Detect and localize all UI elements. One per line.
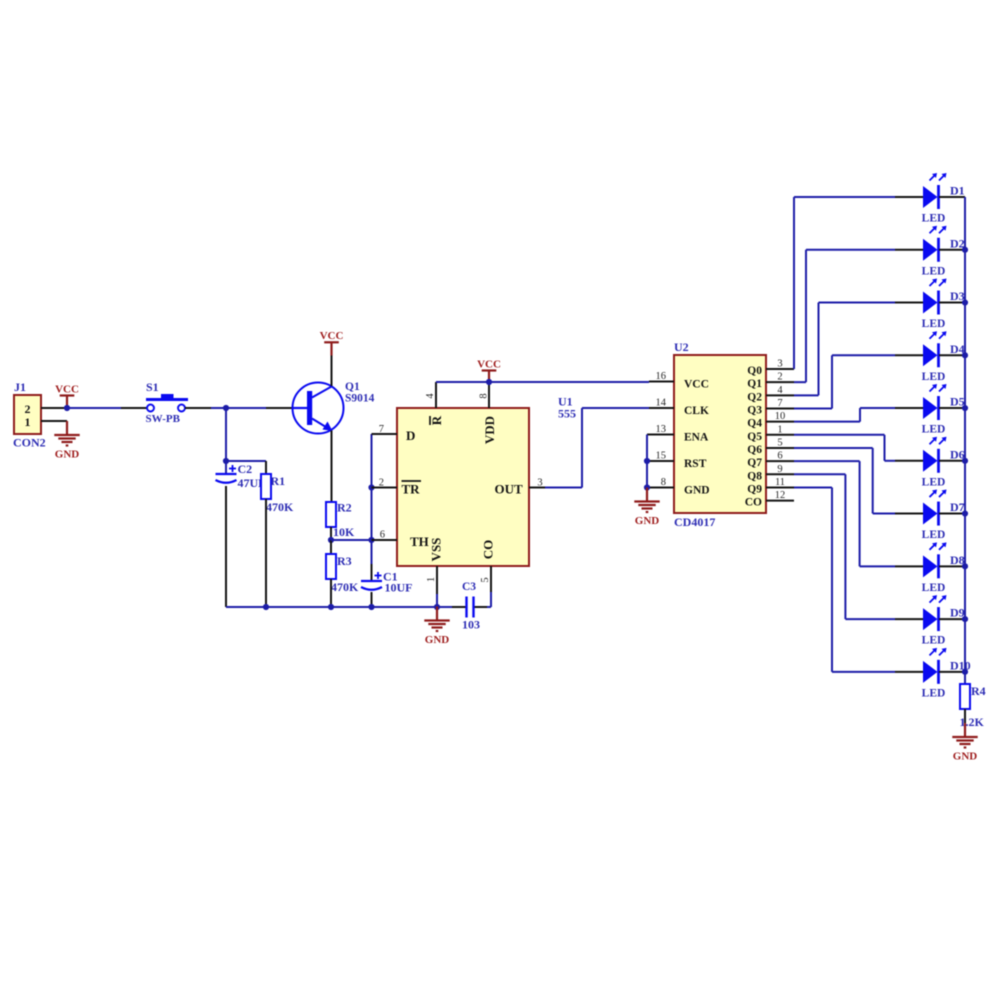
U2 pin 12 CO bbox=[766, 500, 794, 502]
svg-text:1: 1 bbox=[25, 415, 31, 429]
node cathode rail D7 bbox=[962, 510, 968, 516]
svg-text:15: 15 bbox=[656, 451, 667, 462]
svg-text:GND: GND bbox=[953, 750, 978, 762]
svg-text:D: D bbox=[406, 428, 415, 443]
wire Q0 to D1 bbox=[793, 197, 795, 369]
svg-text:1.2K: 1.2K bbox=[960, 715, 985, 729]
U2 pin 2 Q1 bbox=[766, 381, 794, 383]
op-amp U1 555 box bbox=[397, 408, 529, 566]
wire OUT to CLK bbox=[545, 487, 582, 489]
wire base node down to C2 bbox=[225, 408, 227, 461]
wire R4 to ground bbox=[964, 709, 966, 723]
node TR junction bbox=[368, 484, 374, 490]
wire Q7 to D8 bbox=[794, 460, 860, 462]
power VCC (555/U2 net) bbox=[488, 371, 490, 383]
svg-text:LED: LED bbox=[922, 582, 946, 594]
wire vertical D/TR/TH net bbox=[371, 434, 373, 564]
node R1/rail bbox=[263, 604, 269, 610]
LED D7 bbox=[895, 513, 923, 515]
svg-text:VCC: VCC bbox=[477, 358, 501, 370]
wire Q2 to D3 bbox=[794, 394, 819, 396]
svg-text:Q8: Q8 bbox=[747, 470, 762, 482]
U2 pin 4 Q2 bbox=[766, 394, 794, 396]
LED D6 bbox=[895, 460, 923, 462]
LED D8 bbox=[895, 565, 923, 567]
node GND junction (555) bbox=[434, 604, 440, 610]
svg-text:1: 1 bbox=[426, 577, 437, 582]
LED D10 bbox=[895, 671, 923, 673]
LED D9 bbox=[895, 618, 923, 620]
wire Q8 to D9 bbox=[794, 473, 845, 475]
capacitor C1 10UF bbox=[361, 580, 382, 582]
wire VCC rail bbox=[436, 381, 649, 383]
svg-text:Q4: Q4 bbox=[747, 418, 762, 430]
wire Q9 to D10 bbox=[794, 486, 832, 488]
555 pin 8 VDD bbox=[488, 382, 490, 408]
svg-text:LED: LED bbox=[922, 635, 946, 647]
svg-text:3: 3 bbox=[777, 359, 782, 370]
svg-text:Q3: Q3 bbox=[747, 404, 762, 416]
LED D5 bbox=[895, 407, 923, 409]
wire Q3 to D4 bbox=[794, 407, 832, 409]
resistor R1 470K bbox=[261, 474, 271, 499]
svg-text:CON2: CON2 bbox=[13, 436, 46, 450]
U2 pin 14 CLK bbox=[649, 407, 674, 409]
node cathode rail D9 bbox=[962, 616, 968, 622]
wire TH net bbox=[331, 539, 372, 541]
wire Q5 to D6 bbox=[794, 434, 885, 436]
wire collector bbox=[331, 356, 333, 387]
svg-text:R: R bbox=[429, 415, 444, 425]
node cathode rail D5 bbox=[962, 405, 968, 411]
svg-text:10K: 10K bbox=[333, 525, 355, 539]
svg-text:Q1: Q1 bbox=[747, 378, 762, 390]
resistor R2 10K bbox=[326, 502, 336, 527]
svg-text:Q1: Q1 bbox=[345, 381, 360, 393]
U2 pin 10 Q4 bbox=[766, 421, 794, 423]
svg-text:VDD: VDD bbox=[482, 416, 497, 444]
node TH/vertical junction bbox=[368, 537, 374, 543]
svg-text:ENA: ENA bbox=[684, 432, 709, 444]
svg-text:J1: J1 bbox=[14, 380, 26, 394]
svg-text:1: 1 bbox=[777, 424, 782, 435]
svg-text:2: 2 bbox=[25, 402, 31, 416]
svg-text:D1: D1 bbox=[950, 184, 965, 198]
svg-text:CLK: CLK bbox=[684, 405, 709, 417]
power VCC (Q1 collector) bbox=[330, 342, 332, 355]
wire switch right stub bbox=[185, 407, 211, 409]
node cathode rail D10 bbox=[962, 669, 968, 675]
svg-text:LED: LED bbox=[922, 265, 946, 277]
svg-text:U2: U2 bbox=[674, 340, 689, 354]
node base junction bbox=[223, 405, 229, 411]
svg-text:14: 14 bbox=[656, 398, 667, 409]
svg-text:LED: LED bbox=[922, 318, 946, 330]
wire Q1 to D2 bbox=[794, 381, 806, 383]
svg-text:6: 6 bbox=[777, 451, 782, 462]
LED D4 bbox=[895, 354, 923, 356]
ground rail bbox=[226, 606, 452, 608]
svg-text:R1: R1 bbox=[271, 474, 286, 488]
svg-text:LED: LED bbox=[922, 476, 946, 488]
node cathode rail D2 bbox=[962, 247, 968, 253]
svg-text:VCC: VCC bbox=[684, 379, 709, 391]
node cathode rail D8 bbox=[962, 563, 968, 569]
svg-text:Q9: Q9 bbox=[747, 483, 762, 495]
svg-text:R4: R4 bbox=[971, 684, 986, 698]
svg-text:5: 5 bbox=[480, 577, 491, 582]
wire base stub bbox=[266, 407, 293, 409]
svg-text:LED: LED bbox=[922, 213, 946, 225]
svg-text:10UF: 10UF bbox=[385, 581, 413, 595]
555 pin 4 R bbox=[435, 382, 437, 408]
svg-text:R3: R3 bbox=[337, 554, 352, 568]
LED D1 bbox=[895, 196, 923, 198]
wire VCC node to switch bbox=[64, 407, 121, 409]
svg-text:4: 4 bbox=[425, 393, 436, 399]
svg-text:R2: R2 bbox=[337, 501, 352, 515]
U2 pin 13 ENA bbox=[649, 434, 674, 436]
svg-text:RST: RST bbox=[684, 458, 707, 470]
svg-text:LED: LED bbox=[922, 424, 946, 436]
U2 pin 16 VCC bbox=[649, 381, 674, 383]
svg-text:VCC: VCC bbox=[320, 330, 344, 342]
svg-text:GND: GND bbox=[55, 448, 80, 460]
node VCC junction bbox=[64, 405, 70, 411]
svg-text:470K: 470K bbox=[266, 500, 294, 514]
node cathode rail D3 bbox=[962, 299, 968, 305]
LED D2 bbox=[895, 249, 923, 251]
connector J1 bbox=[14, 395, 41, 434]
capacitor C2 47UF bbox=[225, 461, 227, 474]
svg-text:7: 7 bbox=[777, 398, 782, 409]
svg-text:12: 12 bbox=[775, 490, 786, 501]
svg-text:Q6: Q6 bbox=[747, 444, 762, 456]
svg-text:16: 16 bbox=[656, 371, 667, 382]
svg-text:5: 5 bbox=[777, 437, 782, 448]
U2 pin 6 Q7 bbox=[766, 460, 794, 462]
svg-text:CO: CO bbox=[481, 540, 496, 560]
capacitor C3 103 bbox=[465, 597, 467, 618]
svg-text:TR: TR bbox=[402, 482, 421, 497]
svg-text:11: 11 bbox=[775, 477, 785, 488]
svg-text:TH: TH bbox=[410, 534, 429, 549]
resistor R4 1.2K bbox=[960, 684, 970, 709]
svg-text:VSS: VSS bbox=[429, 538, 444, 562]
wire switch to base node bbox=[211, 407, 266, 409]
U2 pin 8 GND bbox=[649, 487, 674, 489]
wire switch left stub bbox=[121, 407, 147, 409]
svg-text:CD4017: CD4017 bbox=[674, 515, 715, 529]
LED D3 bbox=[895, 302, 923, 304]
svg-text:S1: S1 bbox=[146, 380, 159, 394]
svg-text:2: 2 bbox=[777, 372, 782, 383]
ground (U2) bbox=[646, 488, 648, 502]
power VCC (J1) bbox=[66, 396, 68, 409]
svg-text:GND: GND bbox=[635, 515, 660, 527]
wire cathode rail bbox=[964, 197, 966, 684]
node C2/R1 junction bbox=[223, 458, 229, 464]
wire to R1 top bbox=[226, 460, 266, 462]
wire R1 bottom to rail bbox=[265, 499, 267, 607]
U2 pin 7 Q3 bbox=[766, 407, 794, 409]
transistor Q1 S9014 bbox=[293, 383, 344, 434]
svg-text:Q5: Q5 bbox=[747, 431, 762, 443]
U2 pin 15 RST bbox=[649, 460, 674, 462]
wire C1 bottom to rail bbox=[371, 592, 373, 607]
svg-text:6: 6 bbox=[380, 530, 385, 541]
node cathode rail D4 bbox=[962, 352, 968, 358]
svg-text:Q7: Q7 bbox=[747, 457, 762, 469]
ground (555) bbox=[436, 607, 438, 621]
svg-text:LED: LED bbox=[922, 371, 946, 383]
ground (J1) bbox=[66, 421, 68, 435]
svg-text:SW-PB: SW-PB bbox=[146, 413, 181, 425]
ground (R4) bbox=[964, 723, 966, 737]
node cathode rail D6 bbox=[962, 458, 968, 464]
wire emitter down to R2 bbox=[331, 431, 333, 503]
svg-text:Q2: Q2 bbox=[747, 391, 762, 403]
svg-text:C3: C3 bbox=[462, 581, 476, 593]
svg-text:103: 103 bbox=[462, 618, 480, 632]
wire R3 bottom to rail bbox=[330, 579, 332, 607]
svg-text:13: 13 bbox=[656, 424, 667, 435]
svg-text:Q0: Q0 bbox=[747, 365, 762, 377]
svg-text:470K: 470K bbox=[331, 580, 359, 594]
U2 pin 9 Q8 bbox=[766, 473, 794, 475]
svg-text:C2: C2 bbox=[238, 462, 253, 476]
node R2/R3/TH junction bbox=[328, 537, 334, 543]
svg-text:8: 8 bbox=[479, 393, 490, 398]
wire C2 bottom to rail bbox=[225, 486, 227, 607]
svg-text:555: 555 bbox=[558, 407, 576, 421]
wire Q4 to D5 bbox=[794, 421, 860, 423]
svg-text:S9014: S9014 bbox=[345, 393, 375, 405]
svg-text:VCC: VCC bbox=[55, 383, 79, 395]
resistor R3 470K bbox=[330, 540, 332, 554]
U2 pin 3 Q0 bbox=[766, 368, 794, 370]
IC U2 CD4017 box bbox=[674, 355, 766, 513]
U2 pin 11 Q9 bbox=[766, 486, 794, 488]
svg-text:GND: GND bbox=[425, 634, 450, 646]
svg-text:4: 4 bbox=[777, 385, 783, 396]
wire ENA/RST/GND tie bbox=[647, 434, 674, 436]
svg-text:9: 9 bbox=[777, 464, 782, 475]
wire Q6 to D7 bbox=[794, 447, 873, 449]
svg-text:CO: CO bbox=[745, 497, 762, 509]
wire pin5 to C3 bbox=[490, 592, 492, 607]
svg-text:10: 10 bbox=[775, 411, 786, 422]
svg-text:LED: LED bbox=[922, 687, 946, 699]
svg-text:LED: LED bbox=[922, 529, 946, 541]
U2 pin 5 Q6 bbox=[766, 447, 794, 449]
svg-text:OUT: OUT bbox=[495, 482, 524, 497]
U2 pin 1 Q5 bbox=[766, 434, 794, 436]
svg-text:GND: GND bbox=[684, 485, 710, 497]
svg-text:8: 8 bbox=[661, 477, 666, 488]
